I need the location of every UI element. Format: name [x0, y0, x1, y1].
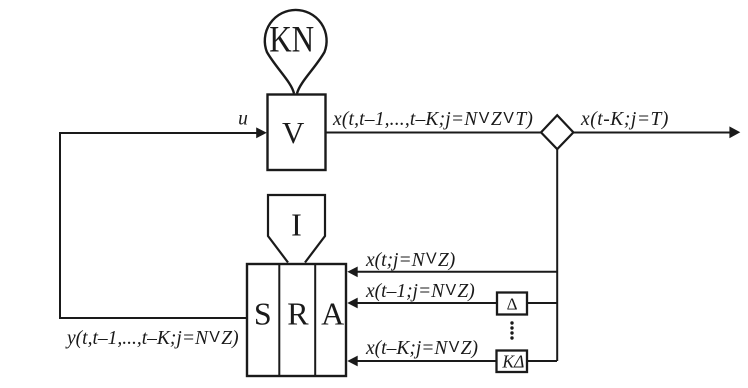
svg-text:R: R	[287, 296, 309, 332]
svg-text:V: V	[282, 115, 305, 150]
svg-text:S: S	[254, 296, 272, 332]
svg-text:x(t–K;j=NVZ): x(t–K;j=NVZ)	[365, 338, 478, 359]
svg-text:Δ: Δ	[507, 295, 518, 314]
svg-text:KΔ: KΔ	[501, 352, 524, 372]
svg-text:x(t-K;j=T): x(t-K;j=T)	[580, 109, 669, 130]
svg-text:I: I	[291, 207, 302, 243]
svg-text:u: u	[238, 109, 248, 130]
svg-text:x(t–1;j=NVZ): x(t–1;j=NVZ)	[365, 281, 475, 302]
svg-text:A: A	[321, 296, 344, 332]
svg-text:x(t,t–1,...,t–K;j=NVZVT): x(t,t–1,...,t–K;j=NVZVT)	[332, 109, 533, 130]
svg-text:KN: KN	[269, 20, 314, 61]
svg-text:x(t;j=NVZ): x(t;j=NVZ)	[365, 250, 455, 271]
svg-text:y(t,t–1,...,t–K;j=NVZ): y(t,t–1,...,t–K;j=NVZ)	[65, 328, 239, 349]
